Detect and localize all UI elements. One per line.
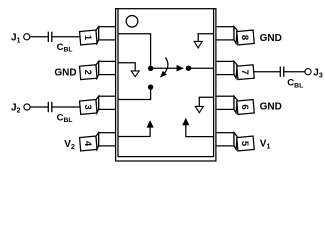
svg-text:GND: GND	[54, 68, 76, 79]
svg-text:7: 7	[239, 70, 250, 75]
svg-text:GND: GND	[260, 102, 282, 113]
svg-text:8: 8	[239, 35, 250, 40]
svg-text:3: 3	[82, 104, 93, 109]
svg-text:GND: GND	[260, 33, 282, 44]
svg-text:1: 1	[82, 35, 93, 41]
svg-text:6: 6	[239, 104, 250, 109]
svg-text:5: 5	[239, 141, 250, 147]
svg-text:4: 4	[82, 141, 93, 147]
svg-text:2: 2	[82, 70, 93, 75]
